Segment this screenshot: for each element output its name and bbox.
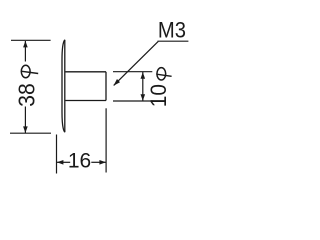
10φ down arrowhead (141, 94, 146, 101)
10φ top extension line (113, 71, 152, 73)
10φ up arrowhead (141, 72, 146, 79)
16 left extension line (56, 135, 58, 174)
M3 leader underline (158, 40, 189, 42)
10φ bottom extension line (113, 100, 154, 102)
phi symbol of 10φ : stroke (156, 74, 171, 76)
knob head (disc, side view) right face (64, 40, 66, 132)
16 dimension line left segment (57, 161, 70, 163)
M3 leader diagonal line (114, 41, 159, 85)
38φ dimension line upper segment (24, 41, 26, 62)
svg-text:M3: M3 (158, 19, 186, 43)
knob head domed left profile (62, 40, 65, 132)
38φ dimension line lower segment (24, 107, 26, 134)
svg-text:10: 10 (147, 84, 172, 107)
stem (10φ boss) top edge (65, 71, 106, 73)
M3 leader arrowhead (113, 79, 120, 86)
16 right arrowhead (99, 160, 106, 165)
stem bottom edge (65, 100, 106, 102)
stem right end face (105, 72, 107, 101)
phi symbol of 10φ : circle (157, 68, 166, 80)
svg-text:16: 16 (68, 149, 91, 172)
16 dimension line right segment (91, 161, 106, 163)
svg-text:38: 38 (14, 83, 40, 107)
phi symbol of 38φ : stroke (21, 71, 38, 73)
10φ dimension line (142, 72, 144, 101)
38φ top extension line (11, 39, 51, 41)
38φ up arrowhead (23, 41, 28, 48)
phi symbol of 38φ : circle (21, 65, 30, 77)
16 left arrowhead (57, 160, 64, 165)
38φ down arrowhead (23, 126, 28, 132)
16 right extension line (105, 108, 107, 172)
38φ bottom extension line (10, 132, 51, 134)
